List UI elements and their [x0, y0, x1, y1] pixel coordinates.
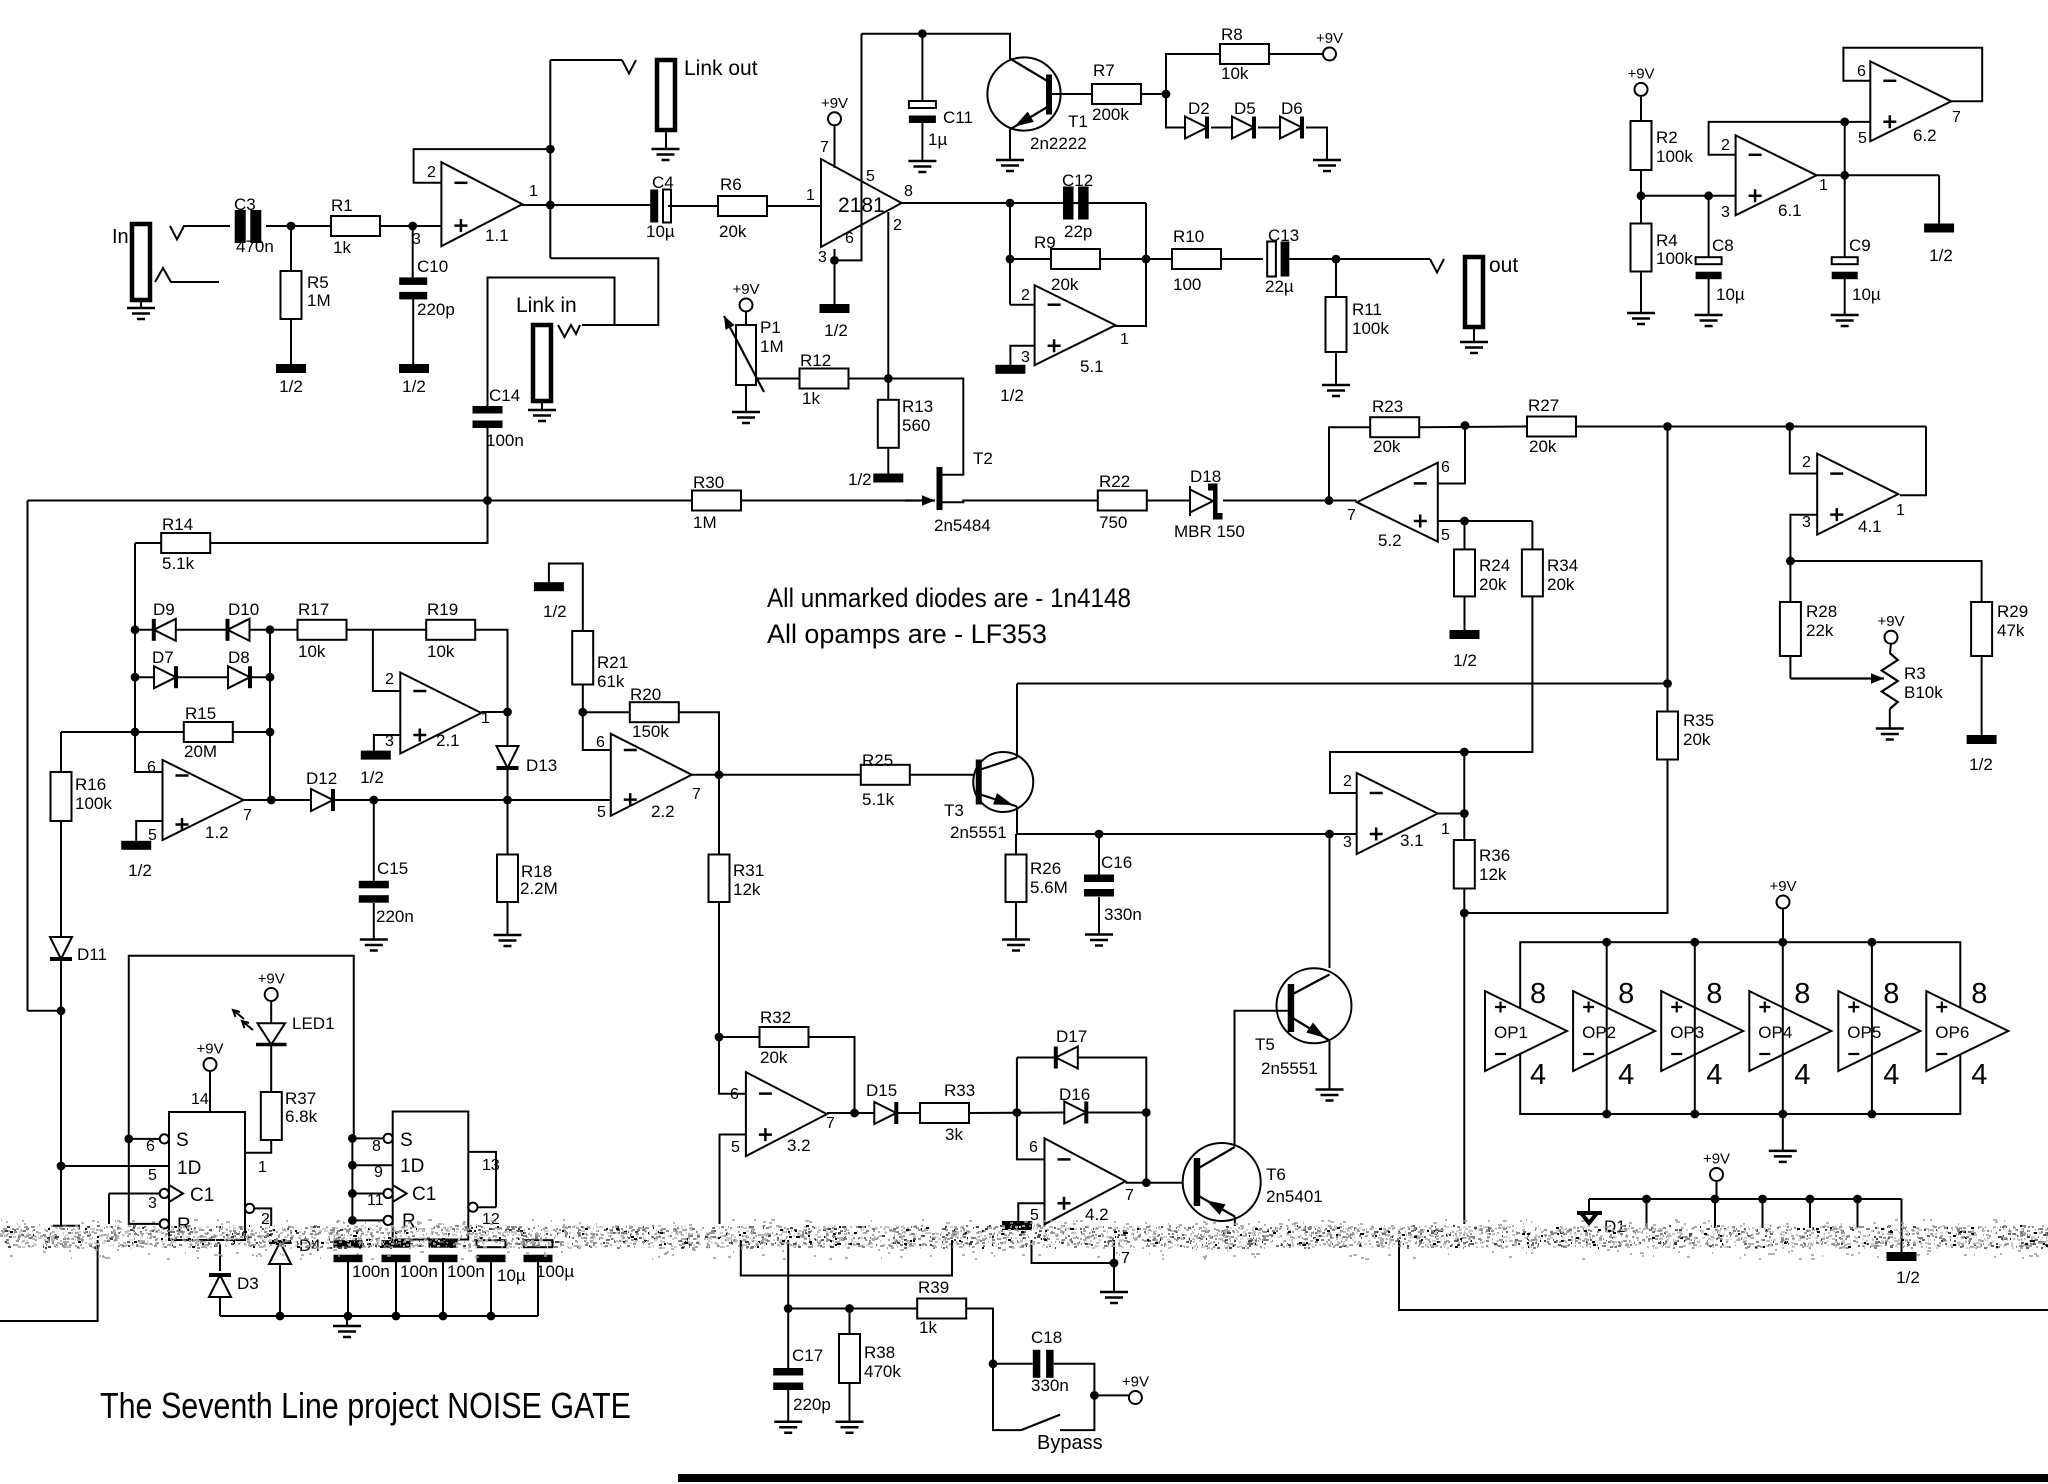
node 1.1 feedback — [546, 145, 555, 154]
svg-text:2: 2 — [1721, 137, 1730, 154]
svg-text:R38: R38 — [864, 1343, 895, 1362]
svg-text:8: 8 — [372, 1138, 381, 1155]
wire bypass cap to bus — [537, 1262, 539, 1316]
svg-text:100n: 100n — [352, 1262, 390, 1281]
half-supply bar R13 — [873, 474, 903, 483]
svg-text:1/2: 1/2 — [128, 861, 152, 880]
svg-text:3k: 3k — [945, 1125, 963, 1144]
wire C12 right to R9 node — [1145, 203, 1147, 327]
svg-text:13: 13 — [482, 1157, 500, 1174]
node C16 — [1095, 830, 1104, 839]
op-amp OP1 power symbol — [1485, 991, 1567, 1071]
wire R22 to D18 — [1147, 500, 1195, 502]
+9V supply at D1 rail — [1710, 1168, 1723, 1181]
capacitor C14 — [473, 406, 503, 414]
potentiometer R3 B10k — [1882, 653, 1898, 709]
svg-text:100k: 100k — [1656, 249, 1693, 268]
wire R11 to ground — [1335, 352, 1337, 385]
svg-text:4: 4 — [1530, 1059, 1546, 1091]
half-supply bar D1 rail — [1887, 1252, 1917, 1261]
svg-text:OP2: OP2 — [1582, 1023, 1616, 1042]
wire R9 to R10 — [1100, 258, 1172, 260]
diode D3 — [209, 1275, 231, 1297]
wire FF2 R — [352, 1219, 383, 1221]
svg-text:4.2: 4.2 — [1085, 1205, 1109, 1224]
resistor R17 — [298, 620, 347, 640]
ground C9 — [1831, 315, 1859, 326]
wire T3 emitter down — [1016, 807, 1018, 835]
wire R16 to D11 — [60, 821, 62, 937]
flip-flop FF2 S bubble — [384, 1134, 393, 1143]
node R9/R10/C12 — [1142, 255, 1151, 264]
svg-text:2.2M: 2.2M — [520, 879, 558, 898]
svg-text:10k: 10k — [298, 642, 326, 661]
svg-text:C4: C4 — [652, 173, 674, 192]
diode D17 — [1056, 1047, 1078, 1069]
connector Link in jack — [533, 325, 551, 401]
wire T3 collector up — [1016, 684, 1018, 758]
wire D1 rail stub to band — [1762, 1199, 1764, 1228]
transistor T5 2n5551 — [1277, 968, 1352, 1043]
wire T1 emitter to ground — [1009, 129, 1011, 160]
wire 3.1 pin2 feed — [1330, 752, 1464, 793]
svg-text:7: 7 — [1121, 1250, 1130, 1267]
resistor R32 — [760, 1027, 809, 1047]
svg-text:C1: C1 — [190, 1185, 214, 1206]
wire diode column down to 1.2 output — [269, 630, 271, 800]
resistor R22 — [1098, 491, 1147, 511]
node OP rail bottom — [1778, 1110, 1787, 1119]
node R15/column — [266, 728, 275, 737]
resistor R14 — [161, 533, 210, 553]
svg-text:D16: D16 — [1059, 1085, 1090, 1104]
node bypass/+9V — [1090, 1391, 1099, 1400]
svg-text:10µ: 10µ — [1716, 285, 1745, 304]
wire R6 to 2181 pin1 — [767, 205, 821, 207]
wire D10 to R17 — [250, 629, 298, 631]
node R38 — [845, 1304, 854, 1313]
wire T2 source to R22 — [942, 501, 1098, 503]
diode D5 — [1232, 117, 1254, 139]
op-amp OP2 power symbol — [1573, 991, 1655, 1071]
ground D2-D6 — [1313, 160, 1341, 171]
svg-text:7: 7 — [692, 786, 701, 803]
diode D4 — [269, 1242, 291, 1264]
node 2.1 out / D13 — [503, 708, 512, 717]
svg-text:R6: R6 — [720, 175, 742, 194]
svg-text:C8: C8 — [1712, 236, 1734, 255]
resistor R5 — [281, 271, 302, 319]
node D1 rail — [1806, 1195, 1815, 1204]
svg-text:C3: C3 — [234, 195, 256, 214]
wire T6 emitter to band — [1234, 1217, 1236, 1227]
svg-text:220p: 220p — [793, 1395, 831, 1414]
+9V supply at FF — [204, 1058, 217, 1071]
svg-text:+9V: +9V — [258, 971, 285, 988]
wire bypass cap to bus — [490, 1262, 492, 1316]
wire node to R29 — [1790, 561, 1981, 602]
svg-text:D13: D13 — [526, 756, 557, 775]
LED LED1 — [258, 1023, 286, 1044]
svg-text:1: 1 — [806, 187, 815, 204]
op-amp 6.1 — [1736, 135, 1817, 215]
half-supply bar R5 — [276, 364, 306, 373]
wire T5 emitter to ground — [1329, 1041, 1331, 1090]
ground T1 — [996, 160, 1024, 171]
wire R16 top row — [61, 731, 135, 733]
svg-text:22µ: 22µ — [1265, 277, 1294, 296]
svg-text:R35: R35 — [1683, 711, 1714, 730]
svg-text:2.1: 2.1 — [436, 731, 460, 750]
resistor R34 — [1522, 549, 1543, 596]
svg-text:1/2: 1/2 — [279, 377, 303, 396]
wire link in to C14 — [488, 278, 615, 407]
wire D4 to bus — [279, 1264, 281, 1316]
wire main line to T2 gate — [28, 500, 906, 502]
wire R36 node down to band — [1465, 913, 1467, 1224]
wire FF1 1D from D11 node — [61, 1165, 169, 1167]
op-amp 6.2 — [1870, 61, 1951, 141]
wire emitter row to 3.1 pin3 — [1016, 833, 1357, 835]
wire bottom right branch — [1399, 1240, 2048, 1310]
wire C10 to half rail — [412, 299, 414, 364]
node R35 top — [1663, 679, 1672, 688]
wire T5 base to T6 collector — [1235, 1011, 1288, 1146]
node C3/R5/R1 — [287, 222, 296, 231]
node OP rail top — [1868, 938, 1877, 947]
svg-text:5: 5 — [866, 168, 875, 185]
svg-text:4: 4 — [1706, 1059, 1722, 1091]
svg-text:20k: 20k — [1683, 730, 1711, 749]
transistor T1 2n2222 — [987, 57, 1060, 130]
svg-text:6: 6 — [1441, 459, 1450, 476]
svg-text:100n: 100n — [447, 1262, 485, 1281]
wire OP block pin column — [1606, 942, 1608, 1114]
ground C16 — [1085, 935, 1113, 946]
node R15 left — [131, 728, 140, 737]
wire D9 to D10 — [176, 629, 228, 631]
svg-text:C16: C16 — [1101, 853, 1132, 872]
svg-text:5.1k: 5.1k — [862, 790, 895, 809]
svg-text:D5: D5 — [1234, 99, 1256, 118]
svg-text:5.2: 5.2 — [1378, 531, 1402, 550]
svg-text:100n: 100n — [400, 1262, 438, 1281]
wire 2181 pin2 down — [887, 212, 889, 379]
T2 gate arrow — [905, 499, 935, 501]
capacitor C17 — [773, 1368, 803, 1376]
wire 2181 output — [902, 202, 1147, 204]
resistor R4 — [1631, 224, 1652, 272]
node OP rail bottom — [1602, 1110, 1611, 1119]
wire R28 to R3 wiper — [1790, 677, 1884, 679]
svg-text:D18: D18 — [1190, 467, 1221, 486]
svg-text:R27: R27 — [1528, 396, 1559, 415]
node C17/R39 — [784, 1304, 793, 1313]
wire R34 down to 3.1 pin2 node — [1464, 596, 1532, 752]
svg-text:T5: T5 — [1255, 1035, 1275, 1054]
svg-text:4.1: 4.1 — [1858, 517, 1882, 536]
svg-text:7: 7 — [243, 807, 252, 824]
ground C15 — [360, 940, 388, 951]
ground R18 — [494, 935, 522, 946]
wire R4 to ground — [1640, 272, 1642, 314]
wire C15 to ground — [373, 903, 375, 940]
half-supply bar 5.1 — [995, 365, 1025, 374]
svg-text:8: 8 — [1971, 978, 1987, 1010]
svg-text:R11: R11 — [1352, 300, 1382, 319]
svg-text:10µ: 10µ — [1852, 285, 1881, 304]
wire D12 to 2.2 pin5 — [333, 799, 611, 801]
wire to C15 — [373, 800, 375, 881]
+9V supply at bypass — [1129, 1391, 1142, 1404]
svg-text:R24: R24 — [1479, 556, 1510, 575]
wire FF1 pin2 down — [254, 1208, 271, 1226]
wire +9V to 2181 pin7 — [834, 125, 836, 168]
svg-text:2n5484: 2n5484 — [934, 516, 991, 535]
wire FF1 S — [129, 1138, 160, 1140]
svg-text:100k: 100k — [1352, 319, 1389, 338]
svg-text:1/2: 1/2 — [543, 602, 567, 621]
wire node to +9V — [1094, 1394, 1129, 1396]
wire to C16 — [1098, 834, 1100, 875]
svg-text:R12: R12 — [800, 351, 831, 370]
wire R7 to node — [1141, 93, 1166, 95]
svg-text:4: 4 — [1618, 1059, 1634, 1091]
svg-text:D9: D9 — [153, 600, 175, 619]
svg-text:T6: T6 — [1266, 1165, 1286, 1184]
resistor R31 — [709, 855, 730, 903]
wire FF2 left bus — [351, 1138, 353, 1224]
wire 5.1 pin3 to half rail — [1010, 346, 1034, 365]
svg-text:2: 2 — [385, 671, 394, 688]
capacitor C9 (polarized) — [1832, 257, 1858, 264]
node R7/R8/D2 — [1162, 90, 1171, 99]
ground Link in — [528, 410, 556, 421]
wire 6.2 feedback loop — [1843, 48, 1982, 102]
node C14/main line — [483, 496, 492, 505]
resistor R18 — [497, 855, 518, 903]
wire to D17 — [1017, 1057, 1056, 1059]
wire to R16 — [60, 732, 62, 772]
ground R38 — [836, 1422, 864, 1433]
svg-text:100k: 100k — [1656, 147, 1693, 166]
wire R21 to 2.2 pin6 — [583, 685, 611, 751]
svg-text:R39: R39 — [918, 1278, 949, 1297]
wire to 2.1 pin2 — [373, 630, 400, 691]
node R9 left — [1006, 255, 1015, 264]
svg-text:Link in: Link in — [516, 294, 577, 317]
+9V supply at P1 — [740, 299, 753, 312]
wire D16 right — [1086, 1112, 1146, 1114]
svg-text:R22: R22 — [1099, 472, 1130, 491]
wire 6.1 feedback to pin2 — [1709, 122, 1845, 155]
wire C4 to R6 — [668, 205, 718, 207]
flip-flop FF1 S bubble — [160, 1134, 169, 1143]
node D1 rail — [1853, 1195, 1862, 1204]
svg-text:2n2222: 2n2222 — [1030, 134, 1087, 153]
wire P1 to R12 — [756, 378, 800, 380]
node 1.2 out / diode column — [267, 796, 276, 805]
op-amp 3.2 — [746, 1072, 827, 1156]
svg-text:5: 5 — [731, 1139, 740, 1156]
wire link in tip kink — [558, 325, 580, 337]
half-supply bar 2181 — [820, 304, 850, 313]
half-supply bar 4.2 — [1002, 1221, 1032, 1230]
connector out jack — [1465, 257, 1483, 327]
node OP rail top — [1690, 938, 1699, 947]
node out / R11 — [1332, 255, 1341, 264]
node R2/R4 — [1637, 191, 1646, 200]
transistor T1 emitter arrow — [1015, 112, 1034, 127]
node T5 collector — [1325, 830, 1334, 839]
svg-text:1M: 1M — [307, 291, 331, 310]
half-supply bar 1.2 — [121, 841, 151, 850]
svg-text:R2: R2 — [1656, 128, 1678, 147]
wire +9V to LED1 — [270, 1001, 272, 1023]
wire R27 to 4.1 feedback — [1576, 426, 1926, 428]
svg-text:1D: 1D — [177, 1158, 201, 1179]
wire link in jack to ground — [541, 401, 543, 410]
half-supply bar R24 — [1450, 630, 1480, 639]
wire D1 rail stub to band — [1857, 1199, 1859, 1228]
svg-text:2: 2 — [1802, 454, 1811, 471]
svg-text:22p: 22p — [1064, 222, 1092, 241]
flip-flop FF1 (4013) — [169, 1112, 245, 1240]
node 6.1 fb / 6.2 pin5 — [1840, 118, 1849, 127]
node 5.2 output — [1325, 496, 1334, 505]
svg-text:OP3: OP3 — [1670, 1023, 1704, 1042]
wire top rail to T1 collector — [862, 34, 1011, 59]
wire 5.2 pin6 up — [1438, 426, 1465, 484]
svg-text:R3: R3 — [1904, 664, 1926, 683]
wire R12 to node — [849, 378, 889, 380]
wire node to R13 — [887, 379, 889, 400]
svg-text:2: 2 — [261, 1211, 270, 1228]
svg-text:+9V: +9V — [1877, 613, 1904, 630]
wire FF2 pin13 — [468, 1152, 496, 1207]
svg-text:5: 5 — [1858, 130, 1867, 147]
+9V supply at R3 — [1885, 631, 1898, 644]
svg-text:R: R — [402, 1211, 416, 1232]
wire R1 to opamp 1.1 — [380, 225, 441, 227]
wire bypass cap to bus — [442, 1262, 444, 1316]
svg-text:5: 5 — [148, 1167, 157, 1184]
resistor R1 — [331, 216, 380, 236]
svg-text:OP1: OP1 — [1494, 1023, 1528, 1042]
transistor T3 emitter arrow — [993, 793, 1013, 805]
wire 3.2 pin5 to band — [720, 1135, 746, 1225]
svg-text:2n5551: 2n5551 — [950, 823, 1007, 842]
svg-text:1: 1 — [529, 183, 538, 200]
wire D1 rail — [1589, 1198, 1902, 1200]
svg-text:6: 6 — [1029, 1139, 1038, 1156]
svg-text:R36: R36 — [1479, 846, 1510, 865]
diode D8 — [228, 666, 250, 688]
ground Link out — [652, 149, 680, 160]
wire D11 column band tick — [53, 1225, 80, 1227]
svg-text:560: 560 — [902, 416, 930, 435]
flip-flop FF2 R bubble — [384, 1216, 393, 1225]
diode D2 — [1185, 117, 1207, 139]
node C8 — [1704, 191, 1713, 200]
wire 1.1 output — [522, 204, 650, 206]
capacitor C16 — [1084, 875, 1114, 883]
svg-text:R32: R32 — [760, 1008, 791, 1027]
resistor R10 — [1172, 249, 1221, 269]
wire 1.2 pin5 to half rail — [136, 821, 162, 841]
flip-flop FF2 pin12 bubble — [468, 1203, 477, 1212]
svg-text:20k: 20k — [1547, 575, 1575, 594]
svg-text:20M: 20M — [184, 742, 217, 761]
wire section box outline — [129, 956, 354, 1139]
svg-text:20k: 20k — [1373, 437, 1401, 456]
half-supply bar C10 — [399, 364, 429, 373]
svg-text:+9V: +9V — [732, 281, 759, 298]
svg-text:1k: 1k — [333, 238, 351, 257]
node 2181 pin3/6 — [830, 256, 839, 265]
svg-text:T2: T2 — [973, 449, 993, 468]
transistor T6 2n5401 (PNP) — [1183, 1143, 1261, 1221]
wire R24 to half rail — [1464, 596, 1466, 630]
resistor R12 — [800, 369, 849, 389]
svg-text:R19: R19 — [427, 600, 458, 619]
wire 1.1 output down — [549, 205, 551, 258]
svg-text:R23: R23 — [1372, 397, 1403, 416]
svg-text:R17: R17 — [298, 600, 329, 619]
svg-text:2: 2 — [893, 217, 902, 234]
resistor R21 — [572, 631, 593, 685]
svg-text:20k: 20k — [1529, 437, 1557, 456]
svg-text:D8: D8 — [228, 648, 250, 667]
wire R39 to bypass switch — [966, 1309, 1021, 1431]
svg-text:5.1k: 5.1k — [162, 554, 195, 573]
wire R27 node down — [1667, 427, 1669, 684]
resistor R30 — [692, 491, 741, 511]
resistor R33 — [920, 1103, 969, 1123]
svg-text:8: 8 — [1530, 978, 1546, 1010]
wire 1.1 feedback — [414, 149, 551, 183]
capacitor C bypass 100n c — [429, 1240, 458, 1248]
wire link out tip kink — [622, 60, 636, 74]
wire 2.2 output to R25 — [692, 774, 861, 776]
svg-text:P1: P1 — [760, 318, 781, 337]
wire FF1 C1 down to band — [108, 1194, 110, 1225]
svg-text:470n: 470n — [236, 237, 274, 256]
wire T1 base to R7 — [1052, 93, 1092, 95]
wire R14 right to main line — [210, 501, 487, 544]
wire OP rail to ground — [1782, 1114, 1784, 1151]
svg-text:1/2: 1/2 — [1896, 1268, 1920, 1287]
node FF2 C1 — [348, 1189, 357, 1198]
svg-text:200k: 200k — [1092, 105, 1129, 124]
capacitor C4 (polarized) — [650, 190, 658, 223]
diode D11 — [50, 937, 72, 959]
wire D8 right stub — [250, 676, 270, 678]
wire +9V to P1 — [745, 312, 747, 326]
wire +9V to D1 rail — [1716, 1181, 1718, 1199]
wire 3.2 output to D15 — [827, 1112, 874, 1114]
wire +9V to OP rail — [1782, 909, 1784, 943]
op-amp 5.2 — [1357, 463, 1438, 542]
svg-text:R5: R5 — [307, 273, 329, 292]
resistor R39 — [917, 1299, 966, 1319]
wire 4.1 feedback down — [1900, 427, 1926, 496]
wire to C8 — [1708, 196, 1710, 257]
svg-text:8: 8 — [1706, 978, 1722, 1010]
node R12/R13/T2 — [884, 374, 893, 383]
transistor T5 emitter arrow — [1306, 1023, 1325, 1039]
+9V supply at R8 — [1323, 48, 1336, 61]
